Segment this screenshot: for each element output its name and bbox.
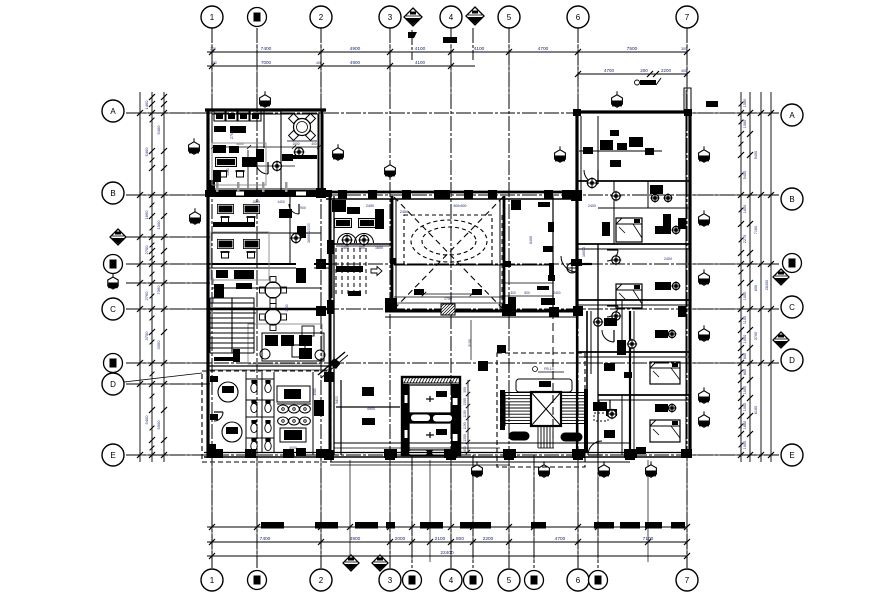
svg-text:400: 400	[681, 69, 687, 73]
left wing big basins	[218, 382, 238, 402]
svg-text:1300: 1300	[463, 398, 467, 406]
svg-text:2700: 2700	[230, 131, 234, 139]
svg-text:FB.10: FB.10	[544, 367, 554, 371]
left wing toilet right wall	[312, 372, 314, 455]
stair arrow	[371, 267, 382, 276]
grid bubble D left	[102, 373, 124, 395]
svg-text:E: E	[789, 451, 794, 460]
hall top wall hatch blocks	[338, 190, 347, 199]
svg-text:2000: 2000	[395, 536, 406, 542]
svg-text:7160: 7160	[754, 226, 758, 234]
corridor door with closer	[561, 256, 577, 272]
main stair benches	[509, 432, 529, 440]
svg-text:10000: 10000	[307, 223, 311, 233]
svg-text:2450: 2450	[400, 210, 408, 214]
svg-text:1500: 1500	[313, 388, 317, 395]
svg-text:4: 4	[449, 13, 454, 22]
keynote diamond left	[110, 229, 126, 245]
grid bubble 6a bottom	[589, 571, 608, 590]
hall top wall	[326, 191, 580, 194]
keynote hexagons	[260, 95, 271, 107]
elevator hatched top wall	[404, 377, 407, 383]
svg-text:1500: 1500	[252, 200, 260, 204]
main stair balusters	[537, 426, 539, 448]
svg-text:7: 7	[685, 13, 690, 22]
grid bubble B right	[781, 188, 803, 210]
label flag right wing	[640, 80, 656, 85]
svg-text:1060: 1060	[743, 120, 747, 128]
left wing toilet wall	[207, 365, 330, 367]
svg-text:4900: 4900	[350, 46, 361, 52]
svg-text:4700: 4700	[555, 536, 566, 542]
elevator hatched bottom wall	[403, 450, 459, 455]
left wing wc stalls	[245, 372, 247, 452]
left wing wall C row	[207, 308, 330, 310]
svg-text:4100: 4100	[415, 46, 426, 52]
atrium ovals	[411, 220, 487, 262]
grid bubble 4a bottom	[464, 571, 483, 590]
left wing gray ghosts	[212, 143, 266, 185]
grid bubble 3a bottom	[403, 571, 422, 590]
svg-text:D: D	[789, 356, 795, 365]
atrium cross diagonals	[394, 197, 503, 309]
svg-text:1100: 1100	[463, 410, 467, 417]
svg-text:800: 800	[743, 369, 747, 375]
left wing bottom black marks	[208, 449, 223, 458]
svg-text:C: C	[789, 303, 795, 312]
escalator stair	[335, 248, 337, 296]
svg-text:5400: 5400	[743, 171, 747, 179]
bottom corridor walls	[334, 442, 630, 444]
svg-text:400: 400	[311, 142, 317, 146]
right wing outer walls	[575, 110, 692, 113]
svg-text:2400: 2400	[664, 257, 672, 261]
svg-text:5000: 5000	[156, 420, 161, 430]
svg-text:4100: 4100	[415, 60, 426, 65]
corridor right of atrium	[552, 196, 554, 311]
grid bubble 4 bottom	[440, 569, 462, 591]
svg-text:1100: 1100	[463, 422, 467, 429]
svg-text:5400: 5400	[144, 415, 149, 425]
grid row lines	[126, 112, 780, 114]
grid bubble B left	[102, 182, 124, 204]
grid bubble C left	[102, 298, 124, 320]
diagonal brace at toilet corner	[318, 352, 345, 375]
svg-text:600: 600	[524, 291, 530, 295]
atrium balcony edge	[394, 264, 504, 266]
svg-text:300: 300	[463, 387, 467, 393]
svg-text:600: 600	[743, 353, 747, 359]
elevator cars	[409, 385, 452, 413]
svg-text:1400: 1400	[277, 200, 285, 204]
grid bubble 6 top	[567, 6, 589, 28]
grid bubble r1 left	[104, 255, 123, 274]
svg-text:4700: 4700	[604, 68, 615, 73]
svg-text:6160: 6160	[754, 406, 758, 414]
keynote diamond right	[773, 269, 789, 285]
svg-text:5400: 5400	[156, 125, 161, 135]
desks top room	[213, 145, 226, 153]
svg-text:1450: 1450	[144, 100, 149, 110]
svg-text:1660: 1660	[743, 421, 747, 429]
atrium bottom wall	[385, 310, 578, 313]
svg-text:26400: 26400	[765, 280, 769, 291]
column blobs on grid intersections	[316, 188, 326, 198]
svg-text:3: 3	[388, 576, 393, 585]
svg-text:3150: 3150	[468, 339, 472, 347]
grid bubble A right	[781, 104, 803, 126]
svg-text:2600: 2600	[285, 304, 289, 311]
grid bubble 7 top	[676, 6, 698, 28]
svg-text:2400: 2400	[553, 291, 560, 295]
svg-text:6: 6	[576, 13, 581, 22]
svg-text:1660: 1660	[144, 210, 149, 220]
right wing inner partitions	[613, 181, 615, 244]
hatched corner columns	[571, 190, 582, 201]
svg-text:3: 3	[388, 13, 393, 22]
svg-text:E: E	[110, 451, 115, 460]
grid bubble D1 left	[104, 354, 123, 373]
grid bubble 4 top	[440, 6, 462, 28]
grid bubble 1a bottom	[248, 571, 267, 590]
grid bubble E right	[781, 444, 803, 466]
svg-text:D: D	[110, 380, 116, 389]
main stair landing	[531, 392, 561, 426]
building bottom wall	[332, 452, 692, 454]
svg-text:200: 200	[640, 68, 648, 73]
svg-text:1800: 1800	[211, 296, 215, 303]
misc wall marks	[505, 261, 511, 267]
svg-text:4100: 4100	[474, 46, 485, 52]
dashed canopy outline	[202, 371, 331, 462]
left wing lower office	[234, 270, 254, 279]
grid bubble 5a bottom	[525, 571, 544, 590]
grid bubble 2 bottom	[310, 569, 332, 591]
svg-text:2100: 2100	[435, 536, 446, 542]
svg-text:5: 5	[507, 576, 512, 585]
svg-text:2760: 2760	[144, 291, 149, 301]
grid bubble E left	[102, 444, 124, 466]
interior dimension line at stair	[467, 380, 469, 452]
left wing bottom wall	[204, 452, 332, 454]
reception room walls	[330, 243, 393, 245]
right extension lines	[692, 112, 778, 114]
main stair treads	[505, 392, 531, 394]
svg-text:B: B	[789, 195, 794, 204]
svg-text:2200: 2200	[661, 68, 672, 73]
svg-text:1000: 1000	[743, 403, 747, 411]
svg-text:2200: 2200	[483, 536, 494, 542]
svg-text:1900: 1900	[298, 206, 306, 210]
svg-text:1: 1	[210, 576, 215, 585]
gray chair legs	[216, 182, 219, 192]
bottom dimension lines	[207, 526, 687, 528]
reception basins	[338, 234, 357, 244]
svg-text:5: 5	[507, 13, 512, 22]
svg-text:300: 300	[510, 291, 516, 295]
svg-text:6: 6	[576, 576, 581, 585]
svg-text:7: 7	[685, 576, 690, 585]
room right of stair	[629, 311, 631, 457]
svg-text:4900: 4900	[350, 60, 361, 65]
grid bubble A left	[102, 100, 124, 122]
left wing right wall	[329, 193, 332, 457]
reception desks	[332, 200, 346, 212]
elevator shaft	[402, 377, 460, 455]
right wing bedroom 2	[616, 284, 642, 308]
svg-text:900: 900	[463, 446, 467, 452]
round table top room	[294, 119, 311, 136]
right wing bedroom 1	[616, 218, 642, 242]
svg-text:3350: 3350	[156, 340, 161, 350]
left dimension lines	[139, 92, 141, 462]
bottom extension lines	[211, 460, 213, 562]
svg-text:7400: 7400	[261, 46, 272, 52]
svg-text:4: 4	[449, 576, 454, 585]
bottom wall segment marks	[261, 522, 284, 529]
top extension lines	[211, 44, 213, 108]
svg-text:1000: 1000	[743, 386, 747, 394]
right wing bedroom 3	[604, 318, 617, 326]
svg-text:3700: 3700	[144, 331, 149, 341]
grid bubble 3 bottom	[379, 569, 401, 591]
svg-text:1100: 1100	[743, 316, 747, 324]
svg-text:1000: 1000	[156, 220, 161, 230]
left wing stair	[210, 297, 254, 299]
svg-text:4900: 4900	[350, 536, 361, 542]
svg-text:1000: 1000	[743, 441, 747, 449]
main stair west wall	[500, 390, 505, 430]
svg-text:200: 200	[210, 47, 216, 51]
svg-text:4900: 4900	[367, 407, 375, 411]
left wing wall r1 row	[207, 263, 330, 265]
keynote hexagon left	[108, 277, 118, 289]
left wing heavy wall B row	[205, 190, 332, 197]
right wing divider walls	[577, 180, 690, 182]
grid bubble 1a top	[248, 8, 267, 27]
top room interior dim chain	[213, 146, 319, 148]
svg-text:5400: 5400	[335, 396, 339, 404]
keynote diamond right 2	[773, 332, 789, 348]
left extension lines	[134, 112, 207, 114]
svg-text:7400: 7400	[260, 536, 271, 542]
svg-text:C: C	[110, 305, 116, 314]
svg-text:1750: 1750	[444, 297, 452, 301]
keynote diamonds bottom	[343, 555, 359, 571]
svg-text:B: B	[110, 189, 115, 198]
left wing lounge	[262, 333, 324, 361]
keynote diamond top 4	[466, 7, 484, 25]
svg-text:1600: 1600	[375, 246, 383, 250]
svg-text:500x500: 500x500	[453, 204, 466, 208]
right dimension lines	[740, 92, 742, 462]
grid bubble 1 bottom	[201, 569, 223, 591]
svg-text:2: 2	[319, 13, 324, 22]
svg-text:1300: 1300	[463, 434, 467, 442]
grid bubble 3 top	[379, 6, 401, 28]
left wing toilet counter	[277, 386, 310, 402]
svg-text:2: 2	[319, 576, 324, 585]
svg-text:5400: 5400	[754, 151, 758, 159]
atrium dashed skylight	[404, 215, 492, 264]
right wing room A fixtures	[597, 116, 599, 181]
svg-text:1560: 1560	[743, 99, 747, 107]
svg-text:6400: 6400	[529, 236, 533, 244]
svg-text:16000: 16000	[307, 233, 311, 243]
left wing middle office desks	[217, 204, 234, 214]
svg-text:A: A	[110, 107, 116, 116]
grid bubble 5 top	[498, 6, 520, 28]
svg-text:2400: 2400	[588, 204, 596, 208]
svg-text:1400: 1400	[211, 278, 215, 285]
grid bubble C right	[781, 296, 803, 318]
svg-text:1600: 1600	[743, 205, 747, 213]
svg-text:1000: 1000	[292, 142, 299, 146]
svg-text:1000: 1000	[743, 292, 747, 300]
main stair lobby box	[516, 379, 572, 392]
svg-text:300: 300	[681, 47, 687, 51]
keynote diamond top 3	[404, 8, 422, 26]
svg-text:2450: 2450	[366, 204, 374, 208]
svg-text:A: A	[789, 111, 795, 120]
svg-text:600: 600	[754, 285, 758, 291]
svg-text:7360: 7360	[156, 285, 161, 295]
right wing chimney	[684, 88, 691, 110]
svg-text:7500: 7500	[627, 46, 638, 52]
svg-text:22400: 22400	[440, 550, 454, 556]
grid bubble r1 right	[783, 254, 802, 273]
svg-text:7000: 7000	[261, 60, 272, 65]
main stair dashed outline	[497, 353, 585, 467]
svg-text:5400: 5400	[144, 147, 149, 157]
left wing partitions	[280, 110, 282, 191]
atrium walls	[391, 196, 394, 312]
top dimension lines	[207, 51, 687, 53]
grid bubble 1 top	[201, 6, 223, 28]
svg-text:16000: 16000	[582, 247, 586, 257]
grid bubble 6 bottom	[567, 569, 589, 591]
svg-text:3700: 3700	[754, 332, 758, 340]
grid bubble D right	[781, 349, 803, 371]
svg-text:1000: 1000	[743, 335, 747, 343]
svg-text:800: 800	[456, 536, 464, 542]
svg-text:2700: 2700	[144, 245, 149, 255]
atrium bottom columns	[385, 298, 397, 311]
grid bubble 2 top	[310, 6, 332, 28]
left wing outer walls	[205, 108, 326, 111]
grid bubble 7 bottom	[676, 569, 698, 591]
grid bubble 5 bottom	[498, 569, 520, 591]
svg-text:4700: 4700	[538, 46, 549, 52]
svg-text:2275: 2275	[743, 235, 747, 243]
svg-text:1: 1	[210, 13, 215, 22]
right wing top room cabinets	[600, 140, 613, 150]
right wing bedroom 4	[608, 410, 616, 418]
left wing top room cabinets	[214, 111, 225, 121]
void room below atrium	[333, 320, 335, 455]
elevator side walls	[403, 384, 409, 454]
grid column lines	[211, 28, 213, 568]
